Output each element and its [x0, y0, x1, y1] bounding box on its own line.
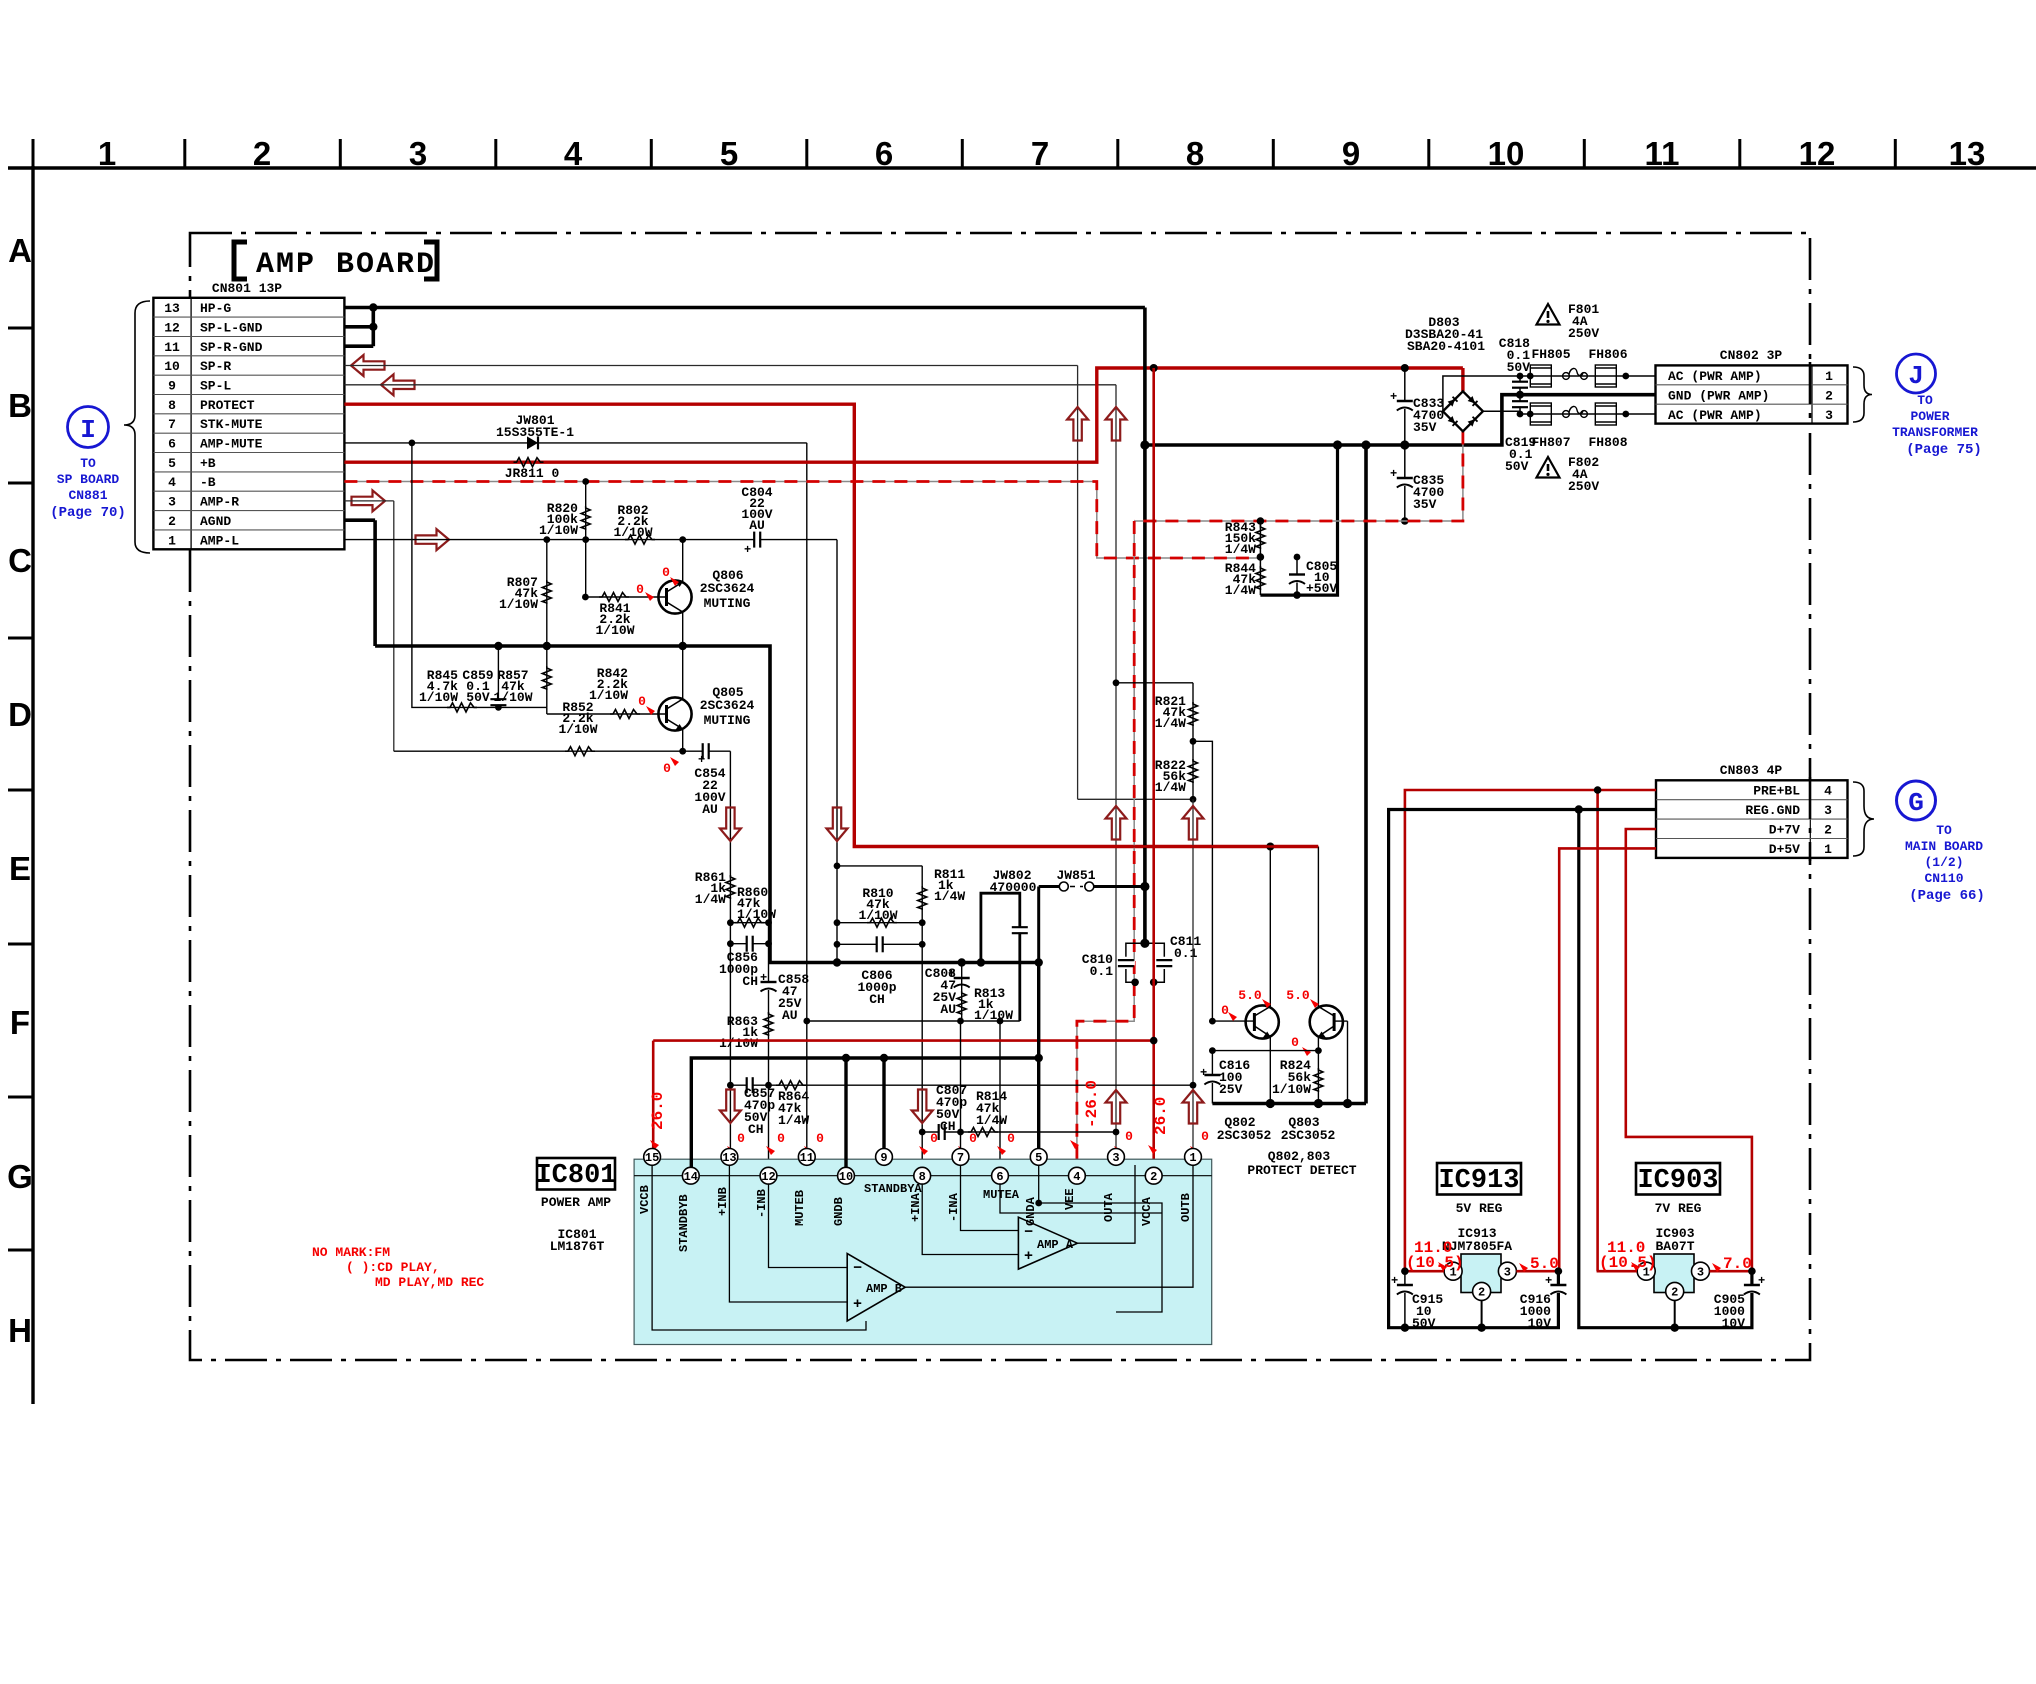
- resistor R844: [1225, 557, 1265, 598]
- svg-text:1/4W: 1/4W: [1225, 542, 1256, 557]
- svg-text:6: 6: [996, 1170, 1003, 1184]
- regulator IC913: [1444, 1254, 1516, 1300]
- svg-text:D+7V: D+7V: [1769, 823, 1800, 838]
- svg-text:+50V: +50V: [1306, 581, 1337, 596]
- svg-text:JW851: JW851: [1056, 868, 1095, 883]
- svg-text:E: E: [9, 850, 31, 887]
- RULERS: [7, 135, 2036, 1404]
- svg-text:GNDB: GNDB: [832, 1197, 846, 1226]
- svg-text:0: 0: [737, 1131, 745, 1146]
- arrow down at C857: [720, 1090, 741, 1124]
- svg-text:AMP-MUTE: AMP-MUTE: [200, 437, 263, 452]
- resistor R807: [499, 540, 551, 646]
- arrow SP-R left: [351, 355, 385, 376]
- svg-text:FH808: FH808: [1588, 435, 1627, 450]
- svg-text:2: 2: [1150, 1170, 1157, 1184]
- svg-text:1: 1: [1189, 1151, 1196, 1165]
- svg-text:10: 10: [1488, 135, 1525, 172]
- svg-text:11: 11: [1645, 135, 1680, 172]
- resistor R864: [769, 1081, 1197, 1128]
- PROTECT: [649, 368, 1366, 1178]
- svg-text:50V: 50V: [1505, 459, 1529, 474]
- svg-text:G: G: [7, 1158, 33, 1195]
- resistor R814: [961, 1089, 1120, 1137]
- arrow on OUTA column upper: [1106, 806, 1127, 840]
- svg-text:35V: 35V: [1413, 497, 1437, 512]
- svg-text:0: 0: [663, 761, 671, 776]
- svg-text:CN110: CN110: [1924, 871, 1963, 886]
- resistor R802: [613, 503, 655, 544]
- svg-text:2: 2: [168, 514, 176, 529]
- svg-text:2SC3624: 2SC3624: [700, 698, 755, 713]
- wire AMP-MUTE net: [344, 440, 806, 1157]
- wire IC913 pin2 ground: [1401, 1300, 1486, 1332]
- connector CN801 table: [153, 281, 344, 549]
- svg-text:1/4W: 1/4W: [1155, 716, 1186, 731]
- svg-text:1/4W: 1/4W: [934, 889, 965, 904]
- label IC913 boxed: [1437, 1163, 1521, 1216]
- svg-text:VCCA: VCCA: [1140, 1196, 1154, 1226]
- capacitor C804: [741, 485, 772, 557]
- svg-text:SP-L-GND: SP-L-GND: [200, 321, 263, 336]
- svg-text:(Page 75): (Page 75): [1906, 442, 1982, 458]
- svg-text:TO: TO: [1936, 823, 1952, 838]
- wire -INA column lower: [960, 1021, 962, 1157]
- resistor R863: [719, 1012, 773, 1051]
- capacitor C859: [462, 646, 507, 707]
- arrow on OUTB column upper: [1183, 806, 1204, 840]
- svg-text:5: 5: [168, 456, 176, 471]
- svg-text:2SC3052: 2SC3052: [1217, 1128, 1272, 1143]
- svg-text:15S355TE-1: 15S355TE-1: [496, 425, 574, 440]
- svg-text:MUTEA: MUTEA: [983, 1188, 1020, 1202]
- wire MUTEA column: [999, 1021, 1001, 1176]
- svg-text:1/4W: 1/4W: [976, 1113, 1007, 1128]
- wire IC903 pin2 ground: [1671, 1300, 1679, 1332]
- voltage 5.0 at IC913: [1519, 1255, 1559, 1273]
- svg-text:3: 3: [1824, 803, 1832, 818]
- svg-text:26.0: 26.0: [649, 1092, 667, 1130]
- svg-text:PRE+BL: PRE+BL: [1753, 784, 1800, 799]
- svg-text:LM1876T: LM1876T: [550, 1239, 605, 1254]
- svg-text:MUTING: MUTING: [704, 596, 751, 611]
- svg-text:1: 1: [98, 135, 116, 172]
- voltage 0 at Q805 base: [638, 694, 655, 715]
- svg-text:SP-R: SP-R: [200, 359, 231, 374]
- capacitor C856: [719, 935, 769, 989]
- resistor JR811: [505, 458, 560, 481]
- svg-text:CN803 4P: CN803 4P: [1720, 763, 1783, 778]
- svg-text:1/10W: 1/10W: [595, 623, 634, 638]
- svg-text:AU: AU: [940, 1002, 956, 1017]
- fuse holder FH805: [1530, 347, 1570, 387]
- fuse holder FH806: [1588, 347, 1627, 387]
- connector symbol I to SP BOARD: [50, 407, 126, 522]
- svg-text:H: H: [8, 1312, 32, 1349]
- svg-text:1/10W: 1/10W: [1272, 1082, 1311, 1097]
- svg-text:1/4W: 1/4W: [778, 1113, 809, 1128]
- svg-text:G: G: [1908, 788, 1924, 818]
- svg-text:AU: AU: [702, 802, 718, 817]
- svg-text:50V: 50V: [1412, 1316, 1436, 1331]
- svg-text:B: B: [8, 387, 32, 424]
- wire +B net red: [344, 364, 1463, 462]
- wire SP-R net: [344, 366, 1193, 800]
- svg-text:6: 6: [168, 437, 176, 452]
- svg-text:SP BOARD: SP BOARD: [57, 472, 120, 487]
- wire MUTEB line: [803, 1018, 1019, 1025]
- wire standby ground bus: [691, 963, 1043, 1176]
- svg-text:CH: CH: [940, 1119, 956, 1134]
- svg-text:1/10W: 1/10W: [539, 523, 578, 538]
- voltage 26.0 at pin2: [1148, 1097, 1170, 1154]
- label protect detect: [1247, 1149, 1356, 1178]
- svg-text:(Page 70): (Page 70): [50, 505, 126, 521]
- fuse warning F801: [1537, 302, 1600, 341]
- svg-text:7: 7: [168, 417, 176, 432]
- svg-text:2: 2: [1825, 389, 1833, 404]
- wire -INB column: [765, 919, 772, 1175]
- note FM CD play red: [312, 1245, 484, 1290]
- svg-text:REG.GND: REG.GND: [1745, 803, 1800, 818]
- capacitor C915: [1391, 1271, 1443, 1331]
- svg-text:13: 13: [722, 1151, 736, 1165]
- svg-text:VCCB: VCCB: [638, 1185, 652, 1214]
- svg-text:3: 3: [168, 495, 176, 510]
- ICBLOCK: [312, 963, 1212, 1345]
- svg-text:12: 12: [1799, 135, 1836, 172]
- svg-text:(Page 66): (Page 66): [1909, 888, 1985, 904]
- wire D+5V net red: [1559, 848, 1656, 1271]
- svg-text:1/10W: 1/10W: [493, 690, 532, 705]
- svg-text:0: 0: [1201, 1129, 1209, 1144]
- voltage 5.0 at Q802: [1238, 988, 1271, 1008]
- svg-text:10: 10: [839, 1170, 853, 1184]
- svg-text:5V REG: 5V REG: [1456, 1201, 1503, 1216]
- resistor R841: [595, 593, 634, 639]
- wire AMP-L net: [344, 536, 837, 962]
- svg-text:FH807: FH807: [1531, 435, 1570, 450]
- svg-text:0: 0: [638, 694, 646, 709]
- connector symbol G to main board: [1897, 781, 1985, 904]
- svg-text:1/10W: 1/10W: [499, 597, 538, 612]
- MUTE: [375, 443, 1201, 1176]
- wire VCC 26V rail red: [653, 368, 1157, 1176]
- wire REG.GND net: [1389, 805, 1752, 1327]
- resistor R820: [539, 478, 590, 597]
- svg-text:+: +: [698, 753, 705, 767]
- REGS: [854, 763, 1985, 1332]
- diode JW801: [496, 413, 574, 449]
- svg-text:0: 0: [662, 565, 670, 580]
- svg-text:+: +: [853, 1296, 862, 1313]
- svg-text:50V: 50V: [466, 690, 490, 705]
- resistor R861: [695, 870, 735, 907]
- svg-text:9: 9: [168, 379, 176, 394]
- title bracket left: [234, 242, 247, 279]
- TITLE: [234, 242, 437, 282]
- svg-text:-INA: -INA: [947, 1192, 961, 1222]
- svg-text:CN802 3P: CN802 3P: [1720, 348, 1783, 363]
- resistor R811: [834, 863, 966, 1176]
- svg-text:J: J: [1908, 361, 1924, 391]
- wire mute branch: [412, 443, 547, 714]
- svg-text:+: +: [760, 971, 767, 985]
- svg-text:7: 7: [957, 1151, 964, 1165]
- wire GND branch to R844: [1260, 445, 1337, 599]
- wire HP-G ground net (pins 13,12,11): [344, 303, 1145, 346]
- POWER: [1077, 302, 1982, 1168]
- svg-text:1/10W: 1/10W: [974, 1008, 1013, 1023]
- svg-text:7: 7: [1031, 135, 1049, 172]
- wire GND branch to protect detect: [1364, 445, 1368, 1104]
- svg-text:CH: CH: [869, 992, 885, 1007]
- capacitor C905: [1714, 1271, 1765, 1331]
- svg-text:AMP B: AMP B: [866, 1282, 902, 1296]
- svg-text:35V: 35V: [1413, 420, 1437, 435]
- svg-text:VEE: VEE: [1063, 1188, 1077, 1210]
- svg-text:GND (PWR AMP): GND (PWR AMP): [1668, 389, 1769, 404]
- svg-text:0.1: 0.1: [1090, 964, 1114, 979]
- svg-text:2: 2: [1671, 1286, 1678, 1300]
- amp A triangle: [1018, 1217, 1077, 1269]
- voltage 5.0 at Q803: [1286, 988, 1319, 1008]
- svg-text:1/10W: 1/10W: [558, 722, 597, 737]
- svg-text:+: +: [1390, 467, 1397, 481]
- svg-text:5.0: 5.0: [1238, 988, 1262, 1003]
- capacitor C810: [1082, 939, 1150, 983]
- title bracket right: [424, 242, 437, 279]
- svg-text:3: 3: [1112, 1151, 1119, 1165]
- even pin row line: [634, 1175, 1212, 1177]
- svg-text:BA07T: BA07T: [1655, 1239, 1694, 1254]
- wire AC line1: [1443, 373, 1656, 412]
- label IC913 NJM7805FA: [1442, 1226, 1512, 1254]
- svg-text:1/10W: 1/10W: [858, 908, 897, 923]
- voltage 7.0 at IC903: [1712, 1255, 1752, 1273]
- svg-text:0: 0: [1125, 1129, 1133, 1144]
- wire OUTB column: [1192, 799, 1194, 1157]
- svg-text:+: +: [1200, 1066, 1207, 1080]
- svg-text:10V: 10V: [1722, 1316, 1746, 1331]
- svg-text:AU: AU: [749, 518, 765, 533]
- pin circles even row: [682, 1167, 1162, 1184]
- op-amp IC801 block: [634, 1159, 1212, 1344]
- arrow down on C806 column: [827, 808, 848, 842]
- capacitor C916: [1520, 1271, 1568, 1331]
- svg-text:I: I: [80, 415, 96, 445]
- svg-text:+INA: +INA: [909, 1192, 923, 1222]
- arrow down on R861 column: [720, 808, 741, 842]
- voltage 0 at Q802 base: [1221, 1003, 1237, 1021]
- wire audio ground bus: [375, 642, 1043, 967]
- svg-text:AMP-L: AMP-L: [200, 533, 239, 548]
- transistor Q802: [1209, 847, 1279, 1144]
- svg-text:0: 0: [777, 1131, 785, 1146]
- svg-text:HP-G: HP-G: [200, 301, 231, 316]
- svg-text:15: 15: [645, 1151, 659, 1165]
- resistor R842: [589, 666, 640, 719]
- svg-text:POWER: POWER: [1910, 409, 1949, 424]
- svg-text:OUTB: OUTB: [1179, 1193, 1193, 1222]
- capacitor C835: [1390, 445, 1444, 525]
- voltage 0 at Q806 base: [636, 582, 654, 601]
- svg-text:12: 12: [761, 1170, 775, 1184]
- pin name labels: [638, 1182, 1193, 1252]
- svg-text:+: +: [1390, 390, 1397, 404]
- resistor R857: [493, 646, 551, 707]
- wire D+7V net red: [1626, 829, 1752, 1271]
- row ticks: [8, 328, 33, 1250]
- svg-text:0: 0: [930, 1131, 938, 1146]
- wire IC913 in out red: [1401, 1267, 1562, 1275]
- resistor R860: [730, 885, 776, 927]
- svg-text:SBA20-4101: SBA20-4101: [1407, 339, 1485, 354]
- svg-text:10: 10: [164, 359, 180, 374]
- svg-text:4: 4: [1824, 784, 1832, 799]
- wire C854 to R861 column: [727, 751, 734, 1157]
- svg-text:-26.0: -26.0: [1083, 1080, 1101, 1128]
- svg-text:3: 3: [1697, 1266, 1704, 1280]
- svg-text:1: 1: [1824, 842, 1832, 857]
- wire protect detect emitter bus: [1212, 1099, 1366, 1108]
- transistor Q803: [1281, 847, 1348, 1144]
- svg-text:MUTEB: MUTEB: [793, 1190, 807, 1226]
- resistor R843: [1225, 520, 1265, 561]
- svg-text:0: 0: [1007, 1131, 1015, 1146]
- capacitor C807: [919, 1083, 968, 1141]
- svg-text:25V: 25V: [1219, 1082, 1243, 1097]
- svg-text:2: 2: [1824, 823, 1832, 838]
- svg-text:3: 3: [1504, 1266, 1511, 1280]
- arrow AMP-L right: [416, 529, 450, 550]
- svg-text:MAIN BOARD: MAIN BOARD: [1905, 839, 1983, 854]
- amp B triangle: [847, 1254, 905, 1322]
- svg-text:-B: -B: [200, 475, 216, 490]
- wire IC903 in out red: [1597, 1267, 1756, 1275]
- svg-text:13: 13: [1949, 135, 1986, 172]
- svg-text:SP-R-GND: SP-R-GND: [200, 340, 263, 355]
- column numbers: [98, 135, 1986, 172]
- fuse warning F802: [1537, 455, 1600, 494]
- svg-text:+: +: [744, 543, 751, 557]
- svg-text:4: 4: [168, 475, 176, 490]
- svg-text:0.1: 0.1: [1174, 946, 1198, 961]
- arrow on OUTA column lower: [1106, 1090, 1127, 1124]
- wire internal amp connections: [652, 1165, 1193, 1330]
- svg-text:TRANSFORMER: TRANSFORMER: [1892, 425, 1978, 440]
- label IC903 BA07T: [1655, 1226, 1694, 1254]
- svg-text:SP-L: SP-L: [200, 379, 231, 394]
- wire Q803 emitter node: [1209, 1047, 1322, 1054]
- arrow SP-L left: [381, 374, 415, 395]
- regulator IC903: [1637, 1254, 1709, 1300]
- svg-text:F: F: [10, 1004, 30, 1041]
- svg-text:11: 11: [800, 1151, 814, 1165]
- row letters: [7, 232, 33, 1349]
- svg-text:0: 0: [1221, 1003, 1229, 1018]
- svg-text:AGND: AGND: [200, 514, 231, 529]
- svg-text:CN801 13P: CN801 13P: [212, 281, 282, 296]
- svg-text:1/4W: 1/4W: [1155, 780, 1186, 795]
- fuse between FH805 FH806: [1563, 368, 1588, 379]
- svg-text:MD PLAY,MD REC: MD PLAY,MD REC: [375, 1275, 484, 1290]
- svg-text:-INB: -INB: [755, 1189, 769, 1218]
- svg-text:0: 0: [636, 582, 644, 597]
- svg-text:AMP-R: AMP-R: [200, 495, 239, 510]
- svg-text:MUTING: MUTING: [704, 713, 751, 728]
- svg-text:(10.5): (10.5): [1599, 1254, 1657, 1272]
- wire R821 junction to Q802 base: [1193, 741, 1212, 1021]
- voltage 26.0 at pin15: [649, 1092, 667, 1149]
- transistor Q806: [582, 541, 755, 646]
- svg-text:7.0: 7.0: [1723, 1255, 1752, 1273]
- arrow AMP-R right: [352, 490, 386, 511]
- fuse holder FH807: [1530, 403, 1570, 450]
- svg-text:Q802,803: Q802,803: [1268, 1149, 1331, 1164]
- brace CN803: [1853, 782, 1874, 856]
- wire PROTECT net red: [344, 404, 1318, 850]
- svg-text:+: +: [1391, 1274, 1398, 1288]
- svg-text:12: 12: [164, 321, 180, 336]
- svg-text:8: 8: [1186, 135, 1204, 172]
- fuse between FH807 FH808: [1563, 406, 1588, 417]
- brace to connector I: [124, 301, 150, 553]
- svg-text:IC913: IC913: [1438, 1166, 1519, 1196]
- svg-text:2: 2: [1478, 1286, 1485, 1300]
- svg-text:0: 0: [969, 1131, 977, 1146]
- voltage 0 at Q806 collector: [662, 565, 679, 586]
- wire AGND net down: [344, 520, 375, 646]
- wire -B net dashed: [344, 482, 1260, 559]
- svg-text:1/10W: 1/10W: [613, 525, 652, 540]
- connector CN803 table: [1656, 763, 1848, 858]
- resistor R852: [558, 700, 597, 756]
- svg-text:D+5V: D+5V: [1769, 842, 1800, 857]
- svg-text:AMP BOARD: AMP BOARD: [256, 248, 436, 282]
- svg-text:PROTECT: PROTECT: [200, 398, 255, 413]
- resistor R821: [1113, 679, 1198, 744]
- svg-text:14: 14: [684, 1170, 698, 1184]
- svg-text:OUTA: OUTA: [1102, 1192, 1116, 1222]
- wire SP-L net: [344, 385, 1116, 1157]
- svg-text:FH806: FH806: [1588, 347, 1627, 362]
- svg-text:NO MARK:FM: NO MARK:FM: [312, 1245, 390, 1260]
- svg-text:0: 0: [816, 1131, 824, 1146]
- resistor R810: [834, 886, 926, 927]
- svg-text:470000: 470000: [990, 880, 1037, 895]
- svg-text:+B: +B: [200, 456, 216, 471]
- svg-text:1/10W: 1/10W: [719, 1036, 758, 1051]
- capacitor C805: [1288, 554, 1337, 596]
- svg-text:5.0: 5.0: [1530, 1255, 1559, 1273]
- border frame ruler lines: [8, 166, 2036, 1404]
- svg-text:5.0: 5.0: [1286, 988, 1310, 1003]
- arrow on SP-L vertical: [1106, 407, 1127, 441]
- svg-text:+: +: [1024, 1248, 1033, 1265]
- label IC801 boxed: [535, 1158, 616, 1210]
- wire -26V rail dashed: [1077, 368, 1463, 1168]
- svg-text:TO: TO: [1917, 393, 1933, 408]
- svg-text:C: C: [8, 542, 32, 579]
- svg-text:−: −: [853, 1260, 862, 1277]
- svg-text:1/4W: 1/4W: [1225, 583, 1256, 598]
- svg-text:11: 11: [164, 340, 180, 355]
- svg-text:5: 5: [1035, 1151, 1042, 1165]
- column ticks: [33, 139, 1895, 168]
- border dash overlay at connectors: [1809, 362, 1812, 861]
- voltage -26.0 at pin4: [1070, 1080, 1101, 1149]
